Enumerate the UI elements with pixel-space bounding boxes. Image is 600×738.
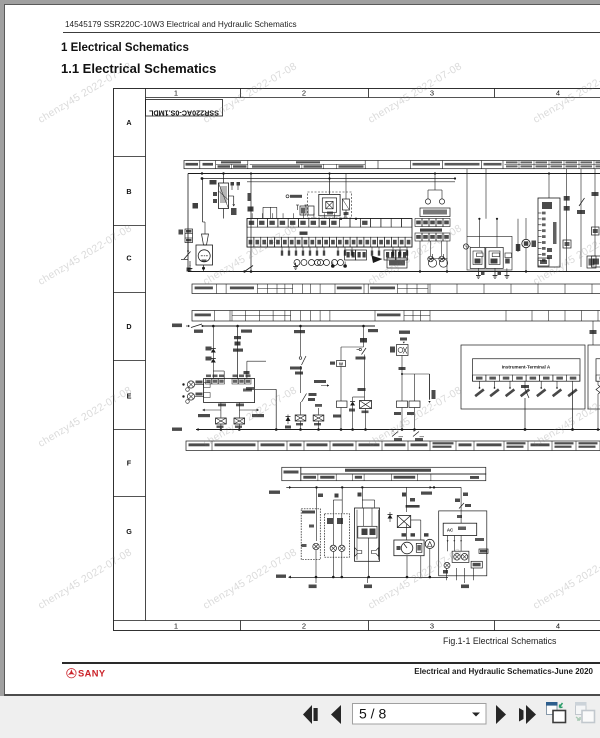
fuse marks on drops	[335, 494, 339, 498]
ground label 2	[364, 585, 372, 589]
svg-text:2: 2	[302, 622, 306, 631]
indicator dot 1	[331, 264, 335, 268]
fuse text 0-7.5A	[286, 195, 289, 198]
power rail aux	[247, 181, 455, 183]
footer text	[391, 667, 593, 676]
relay module R2	[486, 247, 503, 268]
sheet inner bottom line	[114, 620, 600, 622]
W box	[337, 361, 346, 367]
footer rule	[62, 662, 600, 664]
svg-text:Instrument-Terminal A: Instrument-Terminal A	[502, 365, 551, 370]
legend strip 2 frame	[192, 284, 600, 294]
ground label 3	[461, 585, 469, 589]
SB8-A-16 label	[420, 229, 442, 232]
relay K1 pin labels	[213, 192, 217, 196]
section1 left border wire	[187, 174, 189, 272]
AC bottom wires	[447, 568, 474, 580]
S01 switch box	[400, 338, 407, 341]
legend strip 4 cells	[212, 441, 600, 451]
branch wire mid	[237, 326, 239, 379]
lamp pair 3	[318, 260, 324, 266]
lamp unit 2 bulbs	[330, 545, 336, 551]
relay contact KB2	[313, 415, 324, 421]
legend strip 1 group B header B1440	[250, 163, 366, 165]
right wire 3	[594, 169, 596, 256]
ground label 1	[309, 585, 317, 589]
vertical wire N79	[250, 174, 252, 272]
SB8 pin row bottom	[415, 233, 450, 241]
horn lamp H1 box	[196, 245, 213, 265]
AC box outputs	[447, 536, 462, 552]
legend strip 1 group B cells	[301, 164, 303, 168]
resistor K24	[337, 401, 348, 408]
toolbar page input box	[353, 704, 487, 725]
wiper small rect	[416, 543, 422, 552]
toolbar	[0, 696, 600, 738]
tall connector X9	[538, 198, 560, 267]
radio speaker left	[355, 548, 362, 557]
right wire 3 box	[592, 227, 600, 235]
connector 2x block D	[396, 250, 408, 260]
label 29/2/C	[399, 331, 410, 334]
feed nodes	[315, 486, 317, 488]
legend strip 3 cells	[214, 311, 600, 322]
indicator dot 2	[343, 264, 347, 268]
toolbar next-view icon (disabled)	[575, 702, 595, 723]
svg-text:3: 3	[430, 622, 434, 631]
strip5 sub cells	[301, 474, 486, 481]
toolbar prev-page button	[331, 705, 341, 724]
enclosure feed risers	[466, 169, 468, 237]
ECU bottom pins	[218, 404, 226, 407]
relay module grounds	[477, 268, 479, 272]
ECU pin boxes top	[206, 379, 252, 385]
toolbar dropdown arrow	[472, 713, 480, 717]
EF16 label	[172, 324, 182, 328]
under-rail switch 2	[413, 430, 415, 433]
relay module bar box	[505, 253, 512, 258]
fuse F4 stack	[185, 229, 193, 243]
capacitor block	[300, 206, 306, 215]
AC small box A5F8	[479, 549, 488, 553]
label 29/4B	[294, 330, 305, 333]
relay K1 label 150	[210, 180, 217, 185]
AC small box 4F7	[471, 561, 482, 568]
heading 1	[61, 42, 189, 54]
wire with marks	[517, 219, 519, 252]
relay contact KA2	[234, 418, 245, 424]
relay module R1	[470, 247, 485, 268]
radio inner channels	[356, 510, 358, 560]
lamp pair 1	[294, 260, 300, 266]
Y terminals	[297, 205, 299, 210]
relay S5	[342, 199, 349, 210]
elbow wire to pin	[213, 370, 224, 372]
header rule	[63, 32, 600, 33]
schematic drawing	[105, 80, 600, 640]
AC relay box	[452, 551, 469, 562]
rail node dots	[340, 218, 342, 220]
radio inner connector	[358, 526, 377, 538]
legend strip 1 right two-row group	[505, 163, 600, 165]
legend strip 1 cell Aggregate	[199, 161, 201, 169]
wire with down arrow 5k/B	[224, 195, 234, 197]
zone letters	[126, 118, 132, 536]
legend strip 1 group A header	[216, 163, 248, 165]
S07-1 switch	[357, 349, 360, 351]
legend strip 2 cells	[216, 284, 600, 294]
main relay K2 nested box	[319, 194, 340, 215]
svg-text:1: 1	[174, 622, 178, 631]
legend strip 1 cell Flameout	[481, 161, 483, 169]
power rail ACC	[202, 178, 455, 180]
down arrow A5N	[429, 374, 431, 400]
radio speaker right	[372, 548, 379, 557]
connector C3 top pin row	[247, 213, 412, 227]
relay SB8 box	[420, 208, 450, 217]
under-rail switch 1	[392, 430, 394, 433]
lamp pair 2	[309, 260, 315, 266]
drop wires	[317, 487, 462, 513]
AC box	[443, 523, 477, 535]
dark arrow mark	[372, 256, 383, 264]
legend strip 3 frame	[192, 311, 600, 322]
ECU A5 box	[204, 379, 255, 403]
dashed enclosure box	[308, 192, 352, 218]
Instrument-Terminal A pin labels	[474, 388, 577, 397]
power supply cell strip5	[282, 467, 301, 480]
Instrument-Terminal A outer box	[461, 345, 585, 409]
zone numbers bottom	[174, 622, 560, 631]
section1 bottom rail	[188, 271, 600, 273]
bottom switch on rail	[245, 266, 254, 272]
SANY logo	[65, 666, 110, 680]
feed switch S2	[186, 325, 189, 327]
label ENAN	[368, 329, 378, 332]
rail nodes	[212, 325, 215, 328]
legend strip 1 group A cells	[231, 164, 233, 168]
washer pump	[425, 539, 434, 548]
small box 24B	[538, 258, 549, 266]
legend strip 1 cell CAN bus	[441, 161, 443, 169]
horn lamp H1 feed wire	[202, 179, 204, 223]
legend strip 2 text blobs	[195, 287, 395, 290]
Instrument-Terminal B feed wire	[592, 321, 594, 345]
wiper motor gauge box	[394, 540, 424, 556]
AC lamp	[444, 562, 450, 568]
legend strip 1 frame	[184, 161, 600, 169]
ECU pin labels above	[206, 375, 251, 378]
connector C3 bottom pin row	[247, 237, 412, 247]
svg-text:C: C	[126, 254, 131, 263]
svg-text:W: W	[339, 361, 343, 366]
sheet inner top line	[146, 97, 600, 99]
AC unit dashed box	[439, 511, 487, 576]
connector 2x block A	[345, 250, 356, 260]
pin stub wires	[282, 247, 407, 250]
tall connector X9 bottom marks	[547, 248, 552, 252]
svg-text:2: 2	[302, 89, 306, 98]
lamp unit box 1	[301, 509, 320, 560]
wiper feed label	[406, 505, 420, 508]
legend strip 1 cell Regeneration	[502, 161, 504, 169]
toolbar next-page button	[496, 705, 506, 724]
toolbar first-page button	[303, 705, 312, 724]
tall connector X9 top block	[542, 202, 552, 209]
node dot under lamp	[202, 267, 205, 270]
lamp unit box 2	[325, 514, 350, 557]
fuse F4 label	[193, 203, 199, 209]
A5B pin switch	[521, 385, 529, 388]
connector 2x block C	[384, 250, 396, 260]
svg-text:A: A	[126, 118, 131, 127]
power rail B+	[188, 173, 600, 175]
svg-text:F: F	[127, 459, 132, 468]
tall connector X9 pins	[538, 212, 546, 262]
svg-text:B: B	[126, 187, 131, 196]
Instrument-Terminal B resistor	[592, 381, 594, 385]
relay enclosure loop	[467, 236, 512, 270]
zener ZD2	[212, 353, 214, 363]
stub end marks	[281, 251, 408, 256]
svg-text:4: 4	[556, 89, 560, 98]
labeled box above rail	[387, 258, 407, 268]
relay contact KB1	[295, 415, 306, 421]
connector 2x block B	[356, 250, 367, 260]
wiper pads	[402, 533, 407, 536]
ground stub 3	[463, 580, 465, 583]
right wire 2 switch	[579, 198, 585, 206]
legend strip 4 frame	[186, 441, 600, 451]
sheet column dividers	[241, 89, 495, 631]
SB8 pin row top	[415, 219, 450, 227]
arrow 29/4A	[430, 486, 432, 489]
figure caption	[443, 636, 556, 646]
tall connector X9 label	[553, 222, 557, 244]
ECU right wire A5N	[255, 388, 277, 390]
right wire 1 marks	[564, 196, 570, 201]
section3 feed wire	[286, 486, 461, 488]
ground left	[189, 261, 191, 266]
svg-text:AC: AC	[447, 528, 454, 533]
crossed circle terminal	[463, 244, 468, 249]
ECU pin4 feed	[246, 361, 248, 378]
legend strip 3 text blobs	[195, 314, 401, 317]
horn symbol 1	[187, 381, 194, 388]
radio unit box 3	[355, 508, 380, 561]
ground stub 1	[315, 577, 317, 583]
A5B/4B label+arrow	[314, 380, 326, 383]
label 13/4A	[241, 330, 252, 333]
SB8 bottom coils	[428, 256, 434, 262]
lamp unit 1 bulb	[313, 543, 319, 549]
zener ZD1	[212, 345, 214, 352]
section3 bottom rail	[289, 577, 449, 579]
wiper relay	[397, 516, 410, 528]
right wire 2	[580, 169, 582, 267]
legend strip 1 cell empty	[377, 161, 379, 169]
Instrument-Terminal A pin row	[473, 375, 580, 381]
horn lamp H1 bulb	[198, 250, 210, 262]
Instrument-Terminal B pin row	[596, 375, 600, 381]
Instrument-Terminal A pin stubs	[478, 381, 572, 389]
AC feed switch	[460, 511, 462, 523]
Instrument-Terminal A inner box	[473, 359, 581, 382]
svg-text:4: 4	[556, 622, 560, 631]
connector C3 body	[247, 219, 412, 248]
wiper cluster diode	[389, 512, 391, 522]
small fuse marks	[231, 182, 235, 186]
arrow right A5T5AB	[239, 409, 258, 411]
relay K1 tall box	[219, 183, 229, 209]
SB8 down wires	[419, 241, 421, 272]
arrow left A5NAB	[220, 409, 221, 411]
strip5 header box	[301, 467, 486, 474]
sheet outer border	[114, 89, 600, 631]
drawing title block	[146, 100, 223, 117]
ECU left pin boxes	[204, 383, 211, 388]
diode D6	[353, 396, 365, 398]
motor M1	[522, 239, 530, 247]
K27 contact	[309, 393, 317, 396]
relay module feed wires	[478, 219, 480, 248]
Instrument-Terminal B inner box	[596, 359, 600, 382]
zone numbers top	[174, 89, 560, 98]
legend strip 4 text blobs	[189, 442, 600, 448]
svg-text:SANY: SANY	[78, 669, 106, 679]
watermarks	[36, 60, 134, 126]
diode D5	[287, 415, 289, 425]
toolbar last-page button	[526, 705, 536, 724]
S04-2 switch	[300, 326, 302, 356]
svg-text:1: 1	[174, 89, 178, 98]
svg-text:5 / 8: 5 / 8	[359, 706, 386, 722]
legend strip 1 cell Switch	[215, 161, 217, 169]
horn symbol 2	[187, 393, 194, 400]
header text	[65, 20, 297, 29]
right wire 3 box2	[592, 256, 600, 267]
disconnect switch S1	[187, 243, 189, 251]
ground stub 2	[367, 577, 369, 583]
svg-text:G: G	[126, 527, 132, 536]
resistor K25	[397, 401, 408, 408]
sheet row dividers	[114, 157, 146, 497]
C3 feed wires	[263, 207, 277, 218]
lamp pair 4	[332, 260, 338, 266]
relay contact KC1	[360, 401, 372, 409]
ECU inner label	[243, 389, 252, 392]
svg-text:D: D	[126, 322, 131, 331]
section2 top rail	[203, 325, 376, 327]
pin8 long wire	[572, 389, 574, 430]
right bits	[587, 256, 596, 268]
rail junction node	[201, 177, 204, 180]
branch wire left	[212, 326, 214, 345]
Instrument-Terminal B outer box (partial)	[588, 345, 600, 409]
branch W resistor	[363, 326, 365, 347]
horn lamp H1 funnel	[202, 234, 209, 245]
branch split	[402, 373, 430, 375]
wiper gauge	[401, 542, 413, 554]
sheet zone-letter strip line	[145, 89, 147, 621]
relay SB8 coils	[425, 199, 430, 204]
resistor K26	[409, 401, 420, 408]
connector C3 label	[300, 232, 308, 235]
label 4A	[179, 230, 184, 235]
relay contact KA1	[216, 418, 227, 424]
toolbar prev-view icon	[546, 702, 566, 723]
section2 bottom rail	[196, 429, 600, 431]
right wire 1	[566, 169, 568, 272]
heading 1.1	[61, 61, 216, 76]
ground under pins	[295, 263, 297, 265]
twin gauges	[428, 259, 436, 267]
